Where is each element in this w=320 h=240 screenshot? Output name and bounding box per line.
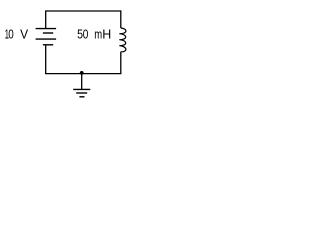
ground stem wire [81,74,83,90]
wire left upper (battery positive lead) [45,10,47,28]
wire left lower (battery negative lead) [45,45,47,74]
svg-text:V: V [20,27,28,42]
wire right upper (inductor top lead) [120,10,122,28]
inductor L1 coil (4 loops) [119,28,126,52]
wire right lower (inductor bottom lead) [120,52,122,74]
junction dot (ground node) [80,71,84,75]
svg-text:0: 0 [83,27,89,42]
wire bottom (ground net) [45,73,121,75]
label 10 V (battery value) [5,27,29,42]
svg-text:0: 0 [8,27,14,42]
battery V1 (10 V source) plates [36,29,57,45]
svg-text:m: m [94,27,102,42]
ground symbol (earth, 3 bars) [73,89,90,96]
svg-text:H: H [102,27,111,42]
wire top (node between battery + and inductor top) [46,10,121,12]
label 50 mH (inductor value) [77,27,111,42]
